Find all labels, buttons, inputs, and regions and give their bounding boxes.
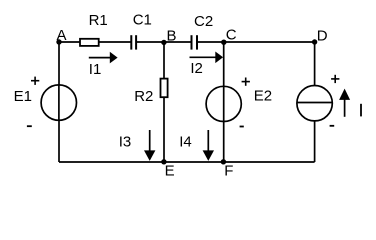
svg-text:R1: R1 — [89, 12, 108, 29]
plus sign of E2 — [242, 78, 250, 86]
svg-text:I1: I1 — [89, 61, 102, 78]
node A junction dot — [56, 39, 61, 44]
current arrow I3 (downward) — [144, 130, 155, 161]
node B junction dot — [161, 40, 166, 45]
svg-text:E1: E1 — [14, 88, 32, 105]
minus sign of E1 — [27, 125, 32, 127]
svg-text:E2: E2 — [254, 88, 272, 105]
resistor R2 — [161, 79, 168, 98]
wire bottom rail E-F — [59, 161, 315, 163]
svg-text:F: F — [224, 163, 233, 180]
svg-text:I4: I4 — [179, 133, 192, 150]
svg-text:I2: I2 — [190, 60, 203, 77]
wire top rail A to D (with gaps at C1 and C2) — [59, 41, 315, 43]
capacitor C2 — [192, 35, 198, 49]
svg-text:A: A — [57, 27, 67, 44]
wire branch B to E — [163, 42, 165, 162]
plus sign of current source — [331, 75, 339, 83]
svg-text:D: D — [317, 28, 328, 45]
svg-text:R2: R2 — [134, 88, 153, 105]
svg-text:C: C — [226, 27, 237, 44]
svg-text:B: B — [167, 28, 177, 45]
node F junction dot — [221, 159, 226, 164]
capacitor C1 — [131, 35, 136, 49]
current source I (circle with horizontal chord) — [297, 86, 332, 121]
resistor R1 — [80, 39, 99, 46]
svg-text:E: E — [165, 163, 175, 180]
current arrow I4 (downward) — [203, 130, 214, 161]
plus sign of E1 — [31, 77, 39, 85]
node D junction dot — [312, 39, 317, 44]
node E junction dot — [161, 159, 166, 164]
voltage source E1 (circle with vertical diameter) — [41, 85, 76, 120]
wire left branch A down to bottom-left corner — [58, 42, 60, 162]
node C junction dot — [221, 40, 226, 45]
svg-text:C2: C2 — [194, 13, 213, 30]
current arrow I2 — [190, 52, 224, 64]
wire branch D down to bottom rail — [314, 42, 316, 162]
svg-text:I3: I3 — [119, 133, 132, 150]
current arrow I1 — [89, 52, 118, 64]
label I — [360, 104, 362, 117]
minus sign of current source — [330, 125, 335, 127]
voltage source E2 (circle with vertical diameter) — [206, 86, 241, 121]
svg-text:C1: C1 — [133, 12, 152, 29]
minus sign of E2 — [240, 126, 244, 128]
wire branch C to F — [223, 42, 225, 162]
current arrow of source I (upward) — [339, 89, 350, 117]
